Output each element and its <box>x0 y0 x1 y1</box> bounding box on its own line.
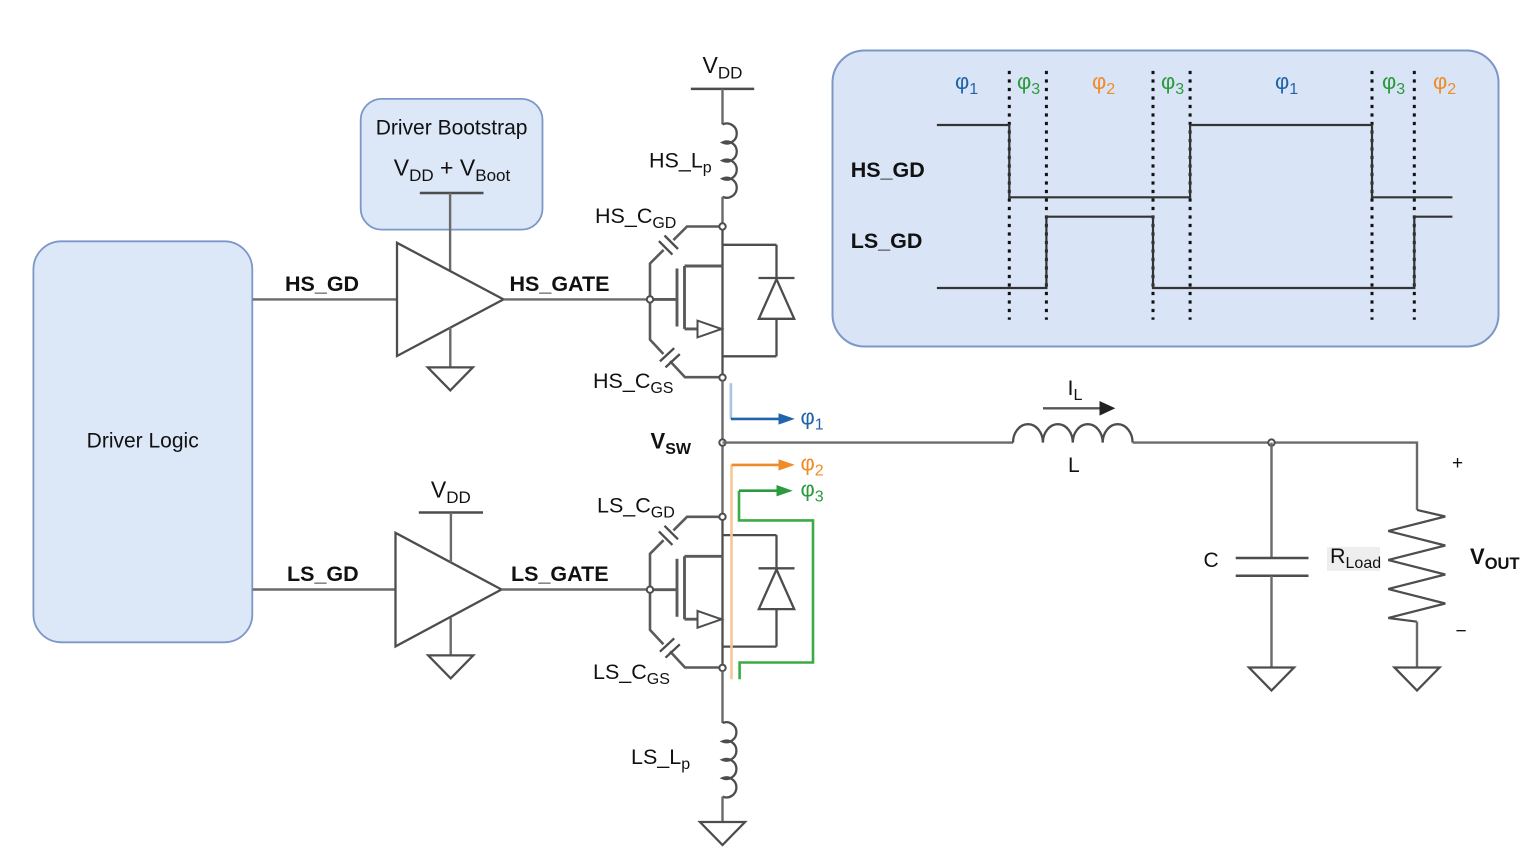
ground below U1 <box>449 328 451 368</box>
wire VSW to inductor L <box>723 441 1014 443</box>
svg-text:HS_Lp: HS_Lp <box>649 149 712 177</box>
buffer U2 (LS driver) <box>396 533 502 647</box>
arrow IL <box>1043 407 1101 409</box>
wire HS_GD <box>253 298 397 300</box>
driver logic box <box>33 241 252 642</box>
svg-text:C: C <box>1204 549 1219 572</box>
svg-text:φ1: φ1 <box>801 405 824 434</box>
capacitor C <box>1236 558 1309 576</box>
svg-text:−: − <box>1456 621 1467 642</box>
svg-text:HS_GATE: HS_GATE <box>510 272 610 296</box>
svg-text:HS_GD: HS_GD <box>851 158 925 182</box>
inductor L <box>1013 424 1133 442</box>
svg-text:VDD: VDD <box>703 52 743 83</box>
arrow phi3 <box>739 477 824 680</box>
dotted line t5 <box>1371 71 1374 320</box>
timing diagram panel <box>833 51 1499 347</box>
dotted line t2 <box>1045 71 1048 320</box>
node VSW <box>719 439 725 445</box>
inductor HS_Lp <box>723 123 737 197</box>
arrow phi2 <box>732 451 824 680</box>
wire node to capacitor C <box>1270 443 1272 558</box>
dotted line t3 <box>1152 71 1155 320</box>
svg-text:HS_GD: HS_GD <box>285 272 359 296</box>
svg-text:HS_CGD: HS_CGD <box>595 204 676 232</box>
svg-text:LS_GD: LS_GD <box>287 562 359 586</box>
bootstrap supply rail <box>420 192 484 195</box>
svg-text:VDD: VDD <box>431 477 471 508</box>
ground below U2 <box>450 618 452 656</box>
svg-text:LS_GATE: LS_GATE <box>511 562 609 586</box>
dotted line t6 <box>1413 71 1416 320</box>
arrow phi1 <box>731 383 824 433</box>
node output junction <box>1268 439 1274 445</box>
wire LS_Lp to ground <box>721 797 723 822</box>
wire HS_Lp to drain <box>721 197 723 224</box>
ground below R_Load <box>1416 622 1418 668</box>
svg-text:+: + <box>1452 453 1463 474</box>
inductor LS_Lp <box>723 722 737 797</box>
svg-text:LS_GD: LS_GD <box>851 229 923 253</box>
svg-text:HS_CGS: HS_CGS <box>593 369 673 397</box>
wire VDD to HS_Lp <box>721 89 723 125</box>
resistor R_Load <box>1388 510 1445 622</box>
svg-text:VOUT: VOUT <box>1470 544 1520 573</box>
waveform LS_GD <box>937 217 1453 288</box>
wire HS source to LS drain (VSW column) <box>721 381 723 514</box>
svg-text:φ3: φ3 <box>801 477 824 506</box>
svg-text:φ2: φ2 <box>801 451 824 480</box>
svg-text:LS_CGS: LS_CGS <box>593 660 670 688</box>
wire LS_GD <box>253 588 396 590</box>
svg-text:L: L <box>1068 454 1080 477</box>
svg-text:VSW: VSW <box>651 429 692 459</box>
waveform HS_GD <box>937 125 1453 197</box>
wire LS_GATE <box>502 588 648 590</box>
wire L to output node <box>1133 443 1417 510</box>
wire VDD rail to U2 <box>450 513 452 563</box>
transistor HS FET with body diode <box>647 223 795 380</box>
VDD rail above U2 <box>419 511 483 514</box>
svg-text:IL: IL <box>1068 376 1083 404</box>
wire bootstrap to buffer U1 <box>449 193 451 271</box>
ground LS_Lp <box>700 822 745 845</box>
ground below C <box>1249 668 1294 691</box>
wire LS source to LS_Lp <box>721 671 723 723</box>
label R_Load <box>1327 547 1380 571</box>
driver bootstrap box <box>361 99 543 230</box>
transistor LS FET with body diode <box>647 514 795 672</box>
svg-text:LS_Lp: LS_Lp <box>631 745 690 773</box>
svg-text:Driver Bootstrap: Driver Bootstrap <box>376 117 528 140</box>
dotted line t4 <box>1189 71 1192 320</box>
svg-text:LS_CGD: LS_CGD <box>597 494 675 522</box>
wire C to ground <box>1270 576 1272 668</box>
wire HS_GATE <box>504 298 648 300</box>
buffer U1 (HS driver) <box>397 243 504 356</box>
VDD top rail <box>691 88 754 91</box>
svg-text:Driver Logic: Driver Logic <box>87 430 199 453</box>
dotted line t1 <box>1008 71 1011 320</box>
